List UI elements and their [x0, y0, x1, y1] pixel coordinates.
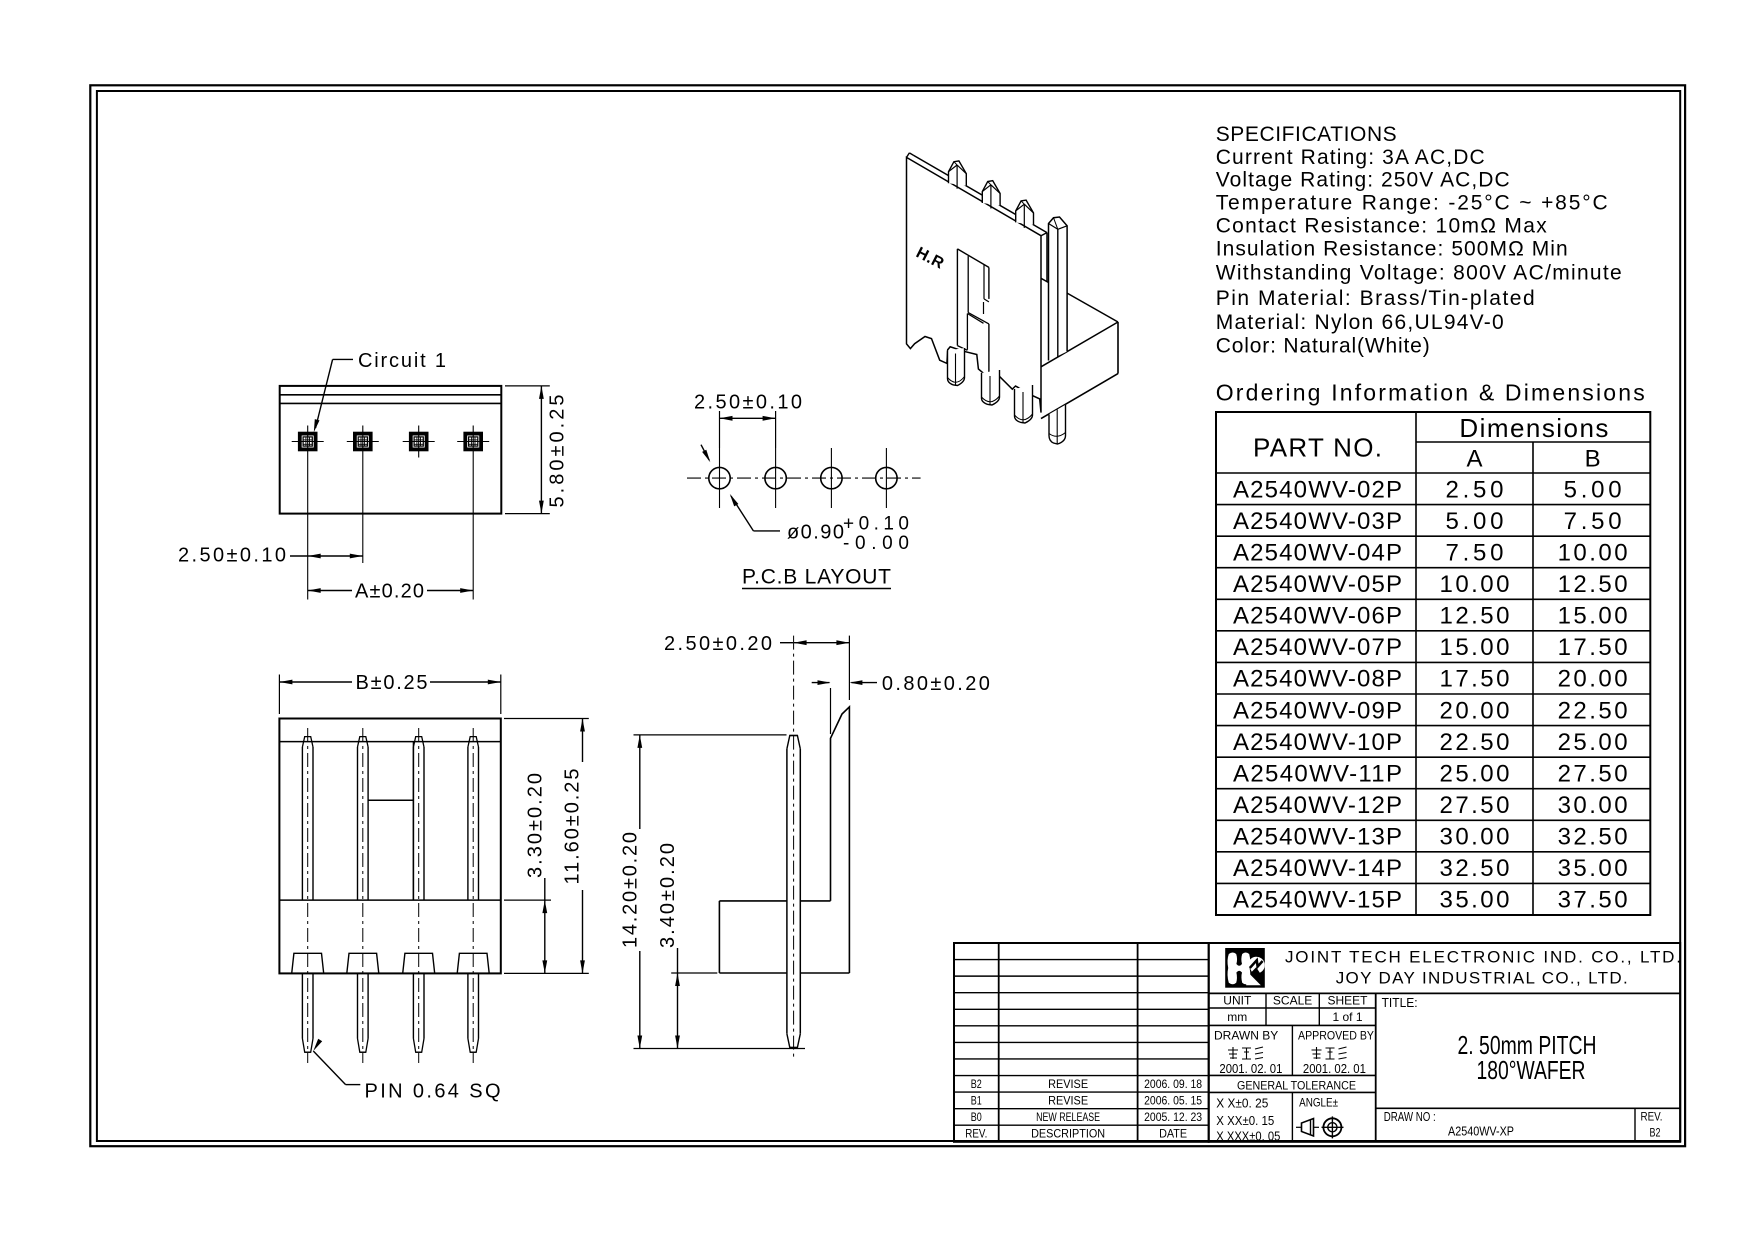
isometric view: bottom pin 3	[1015, 385, 1033, 423]
svg-text:11.60±0.25: 11.60±0.25	[562, 769, 584, 885]
isometric view: tall pin 4 (front row)	[1049, 217, 1068, 361]
isometric view: top pin 1	[949, 161, 967, 189]
svg-text:7.50: 7.50	[1564, 508, 1622, 535]
svg-text:B1: B1	[971, 1093, 982, 1107]
isometric view: top pin 2	[982, 181, 1000, 209]
svg-text:2001. 02. 01: 2001. 02. 01	[1219, 1061, 1282, 1076]
pcb layout: hole 2 (ø0.90)	[765, 448, 786, 508]
svg-text:180°WAFER: 180°WAFER	[1477, 1055, 1586, 1085]
isometric view: bottom pin 1	[948, 348, 965, 386]
section view: dimension 3.40±0.20	[657, 843, 717, 1049]
specifications text block	[1216, 123, 1622, 358]
svg-text:REV.: REV.	[965, 1127, 987, 1141]
front view: dimension A±0.20 (overall pin span)	[308, 581, 474, 603]
side view: pin 1	[292, 728, 324, 1063]
svg-text:A2540WV-XP: A2540WV-XP	[1448, 1124, 1514, 1139]
svg-text:SPECIFICATIONS: SPECIFICATIONS	[1216, 123, 1397, 146]
svg-text:DATE: DATE	[1159, 1127, 1187, 1141]
svg-text:17.50: 17.50	[1558, 634, 1628, 661]
svg-text:X XX±0. 15: X XX±0. 15	[1216, 1113, 1274, 1128]
pcb layout: dimension 2.50±0.10 (hole pitch)	[694, 392, 802, 448]
side view: pin 3	[403, 728, 435, 1063]
svg-text:2001. 02. 01: 2001. 02. 01	[1303, 1061, 1366, 1076]
svg-text:ø0.90: ø0.90	[787, 522, 844, 544]
side view: pin 4	[457, 728, 489, 1063]
svg-text:2.50±0.10: 2.50±0.10	[178, 545, 286, 567]
svg-text:JOINT TECH ELECTRONIC IND. CO: JOINT TECH ELECTRONIC IND. CO., LTD.	[1285, 948, 1681, 967]
section view: base block	[719, 901, 849, 973]
third angle projection symbols	[1296, 1116, 1344, 1138]
svg-text:Contact Resistance: 10mΩ Ma: Contact Resistance: 10mΩ Max	[1216, 215, 1548, 238]
svg-text:27.50: 27.50	[1440, 792, 1510, 819]
ordering information heading	[1216, 380, 1645, 406]
front view: pin 4 centerline cross	[457, 426, 489, 600]
svg-text:Color: Natural(White): Color: Natural(White)	[1216, 335, 1430, 358]
svg-text:Current Rating: 3A AC,DC: Current Rating: 3A AC,DC	[1216, 146, 1485, 169]
svg-text:2.50±0.10: 2.50±0.10	[694, 392, 802, 414]
svg-text:NEW RELEASE: NEW RELEASE	[1036, 1110, 1100, 1124]
isometric view: bottom pin 2	[982, 370, 1000, 405]
svg-text:UNIT: UNIT	[1223, 994, 1252, 1008]
svg-text:mm: mm	[1227, 1010, 1247, 1024]
svg-text:10.00: 10.00	[1440, 571, 1510, 598]
svg-text:7.50: 7.50	[1446, 539, 1504, 566]
svg-text:SCALE: SCALE	[1273, 994, 1312, 1008]
front view: dimension 5.80±0.25 (body height)	[505, 386, 569, 514]
svg-text:A2540WV-10P: A2540WV-10P	[1233, 729, 1402, 756]
side view: dimension B±0.25 (body width)	[279, 672, 500, 714]
svg-text:APPROVED BY: APPROVED BY	[1298, 1029, 1374, 1043]
svg-text:A2540WV-09P: A2540WV-09P	[1233, 697, 1402, 724]
svg-text:20.00: 20.00	[1558, 666, 1628, 693]
svg-text:30.00: 30.00	[1558, 792, 1628, 819]
front view: pin 1 centerline cross	[292, 426, 324, 600]
svg-text:2006. 09. 18: 2006. 09. 18	[1144, 1077, 1202, 1091]
front view: Circuit 1 label and leader	[314, 350, 446, 432]
svg-text:35.00: 35.00	[1440, 887, 1510, 914]
svg-text:A2540WV-02P: A2540WV-02P	[1233, 476, 1402, 503]
svg-text:Voltage Rating: 250V AC,DC: Voltage Rating: 250V AC,DC	[1216, 169, 1510, 192]
svg-text:DRAW NO :: DRAW NO :	[1384, 1109, 1436, 1124]
svg-text:A2540WV-15P: A2540WV-15P	[1233, 887, 1402, 914]
side view: pin 2	[347, 728, 379, 1063]
isometric view: bottom pin under base block	[1049, 405, 1066, 444]
svg-text:GENERAL TOLERANCE: GENERAL TOLERANCE	[1237, 1078, 1356, 1092]
svg-text:25.00: 25.00	[1558, 729, 1628, 756]
svg-text:DESCRIPTION: DESCRIPTION	[1031, 1127, 1105, 1141]
inner border frame	[97, 91, 1680, 1141]
svg-text:P.C.B LAYOUT: P.C.B LAYOUT	[742, 566, 891, 589]
front view: pin 4 square contact	[463, 432, 483, 452]
side view: polarity key rib	[368, 742, 413, 901]
svg-text:32.50: 32.50	[1440, 855, 1510, 882]
svg-text:Material: Nylon 66,UL94V-0: Material: Nylon 66,UL94V-0	[1216, 311, 1504, 334]
pcb layout: hole 4 (ø0.90)	[876, 448, 897, 508]
outer border frame	[90, 85, 1685, 1146]
front view: pin 3 centerline cross	[403, 426, 435, 458]
svg-text:A2540WV-11P: A2540WV-11P	[1233, 760, 1402, 787]
svg-text:PART NO.: PART NO.	[1253, 433, 1382, 463]
ordering information and dimensions table	[1216, 412, 1650, 915]
side view: dimension 11.60±0.25	[504, 719, 589, 974]
svg-text:22.50: 22.50	[1558, 697, 1628, 724]
general tolerance cell	[1216, 1078, 1356, 1143]
svg-text:22.50: 22.50	[1440, 729, 1510, 756]
revision history table	[954, 943, 1209, 1142]
svg-text:Circuit 1: Circuit 1	[358, 350, 446, 372]
section view: dimension 2.50±0.20	[664, 633, 849, 700]
side view: connector body	[279, 719, 500, 974]
svg-text:A2540WV-12P: A2540WV-12P	[1233, 792, 1402, 819]
isometric view: H.R moulded marking	[913, 244, 947, 272]
section view: side wall profile	[831, 707, 850, 973]
svg-text:32.50: 32.50	[1558, 824, 1628, 851]
svg-text:12.50: 12.50	[1558, 571, 1628, 598]
side view: PIN 0.64 SQ label and leader	[313, 1039, 500, 1103]
isometric view: wafer back panel	[907, 153, 1048, 413]
section view: dimension 14.20±0.20	[620, 735, 806, 1049]
svg-text:B2: B2	[971, 1077, 982, 1091]
svg-text:Temperature Range: -25°C ~: Temperature Range: -25°C ~ +85°C	[1216, 192, 1608, 215]
svg-text:REVISE: REVISE	[1048, 1093, 1088, 1107]
svg-text:A2540WV-03P: A2540WV-03P	[1233, 508, 1402, 535]
pcb layout: title P.C.B LAYOUT	[742, 566, 891, 589]
svg-text:B±0.25: B±0.25	[356, 672, 428, 694]
svg-text:DRAWN BY: DRAWN BY	[1214, 1029, 1278, 1043]
svg-text:0.80±0.20: 0.80±0.20	[882, 673, 990, 695]
pcb layout: horizontal centerline	[687, 477, 921, 479]
svg-text:5.80±0.25: 5.80±0.25	[547, 395, 569, 508]
svg-text:5.00: 5.00	[1564, 476, 1622, 503]
drawn by / approved by cells	[1214, 1029, 1374, 1077]
front view: pin 3 square contact	[409, 432, 429, 452]
svg-text:REV.: REV.	[1641, 1109, 1663, 1123]
section view: dimension 0.80±0.20	[812, 673, 990, 734]
company names	[1285, 948, 1681, 988]
svg-text:3.30±0.20: 3.30±0.20	[525, 773, 547, 878]
isometric view: central slot cutout	[957, 249, 989, 373]
svg-text:X XXX±0. 05: X XXX±0. 05	[1216, 1129, 1280, 1144]
company logo HR	[1225, 948, 1265, 988]
svg-text:A: A	[1466, 446, 1482, 473]
svg-text:15.00: 15.00	[1440, 634, 1510, 661]
svg-text:12.50: 12.50	[1440, 603, 1510, 630]
svg-text:SHEET: SHEET	[1327, 994, 1368, 1008]
isometric view: base block	[1041, 278, 1118, 418]
svg-text:Dimensions: Dimensions	[1459, 413, 1608, 443]
svg-text:30.00: 30.00	[1440, 824, 1510, 851]
isometric view: top pin 3	[1016, 200, 1034, 228]
svg-text:2005. 12. 23: 2005. 12. 23	[1144, 1110, 1202, 1124]
svg-text:2.50: 2.50	[1446, 476, 1504, 503]
svg-text:14.20±0.20: 14.20±0.20	[620, 832, 642, 948]
svg-text:A2540WV-13P: A2540WV-13P	[1233, 824, 1402, 851]
svg-text:10.00: 10.00	[1558, 539, 1628, 566]
svg-text:JOY DAY INDUSTRIAL CO., LTD.: JOY DAY INDUSTRIAL CO., LTD.	[1336, 969, 1628, 988]
svg-text:A2540WV-08P: A2540WV-08P	[1233, 666, 1402, 693]
svg-text:1 of 1: 1 of 1	[1332, 1010, 1362, 1024]
svg-text:Pin Material: Brass/Tin-plat: Pin Material: Brass/Tin-plated	[1216, 287, 1535, 310]
pcb layout: hole diameter leader ø0.90 +0.10/-0.00	[701, 445, 909, 554]
title block labels: unit scale sheet	[1223, 994, 1368, 1025]
front view: pin 2 centerline cross	[347, 426, 379, 564]
svg-text:17.50: 17.50	[1440, 666, 1510, 693]
svg-text:REVISE: REVISE	[1048, 1077, 1088, 1091]
svg-text:A2540WV-05P: A2540WV-05P	[1233, 571, 1402, 598]
svg-text:2.50±0.20: 2.50±0.20	[664, 633, 772, 655]
svg-text:2006. 05. 15: 2006. 05. 15	[1144, 1093, 1202, 1107]
svg-text:15.00: 15.00	[1558, 603, 1628, 630]
title text	[1382, 995, 1597, 1085]
front view: pin 1 square contact	[298, 432, 318, 452]
svg-text:ANGLE±: ANGLE±	[1299, 1095, 1338, 1109]
draw no and rev cells	[1384, 1109, 1663, 1140]
svg-text:35.00: 35.00	[1558, 855, 1628, 882]
svg-text:A2540WV-07P: A2540WV-07P	[1233, 634, 1402, 661]
svg-text:A2540WV-14P: A2540WV-14P	[1233, 855, 1402, 882]
svg-text:37.50: 37.50	[1558, 887, 1628, 914]
svg-text:20.00: 20.00	[1440, 697, 1510, 724]
svg-text:B: B	[1585, 446, 1601, 473]
side view: dimension 3.30±0.20	[504, 773, 551, 973]
front view: dimension 2.50±0.10 (pin pitch)	[178, 545, 363, 567]
front view: connector body outline	[280, 386, 502, 514]
svg-text:A2540WV-04P: A2540WV-04P	[1233, 539, 1402, 566]
title block outline	[1209, 943, 1681, 1142]
svg-text:TITLE:: TITLE:	[1382, 995, 1418, 1010]
pcb layout: hole 1 (ø0.90)	[709, 448, 730, 508]
svg-text:X X±0. 25: X X±0. 25	[1216, 1096, 1268, 1111]
svg-text:5.00: 5.00	[1446, 508, 1504, 535]
svg-text:A2540WV-06P: A2540WV-06P	[1233, 603, 1402, 630]
pcb layout: hole 3 (ø0.90)	[821, 448, 842, 508]
svg-text:27.50: 27.50	[1558, 760, 1628, 787]
svg-text:B2: B2	[1650, 1126, 1661, 1140]
svg-text:B0: B0	[971, 1110, 982, 1124]
front view: pin 2 square contact	[353, 432, 373, 452]
svg-text:Withstanding Voltage: 800V: Withstanding Voltage: 800V AC/minute	[1216, 262, 1622, 285]
svg-text:3.40±0.20: 3.40±0.20	[657, 843, 679, 948]
svg-text:+0.10: +0.10	[843, 514, 909, 535]
svg-text:25.00: 25.00	[1440, 760, 1510, 787]
section view: pin	[787, 636, 800, 1057]
svg-text:Insulation Resistance: 500MΩ: Insulation Resistance: 500MΩ Min	[1216, 238, 1568, 261]
svg-text:A±0.20: A±0.20	[355, 581, 424, 603]
